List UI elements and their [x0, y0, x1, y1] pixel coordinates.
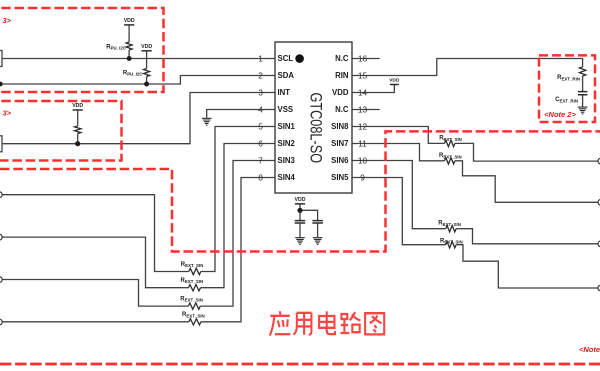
resistor R_EXT_SIN right 2	[445, 158, 455, 164]
resistor R_EXT_SIN right 3	[446, 226, 456, 232]
wire SIN8 net	[352, 127, 599, 162]
ground under C2	[313, 238, 323, 245]
terminal SIN7 right edge	[598, 199, 600, 205]
wire SCL net	[0, 58, 275, 60]
svg-text:14: 14	[358, 87, 368, 97]
svg-text:REXT_RIN: REXT_RIN	[557, 75, 580, 81]
note box 3 SIN region	[0, 131, 600, 251]
svg-text:16: 16	[358, 53, 368, 63]
svg-text:13: 13	[358, 104, 368, 114]
wire RIN net	[352, 59, 583, 76]
resistor R_EXT_SIN left 4	[189, 319, 201, 325]
svg-text:SIN7: SIN7	[331, 139, 348, 148]
svg-text:SIN8: SIN8	[331, 122, 349, 131]
svg-text:VDD: VDD	[332, 88, 349, 97]
svg-text:N.C: N.C	[335, 54, 349, 63]
svg-text:7: 7	[258, 155, 263, 165]
svg-text:REXT_SIN: REXT_SIN	[438, 221, 461, 227]
note box 1 I2C pullups	[0, 8, 164, 92]
junction dot RPU1/SCL	[127, 56, 132, 61]
svg-text:VDD: VDD	[124, 18, 135, 24]
svg-text:<Note 3>: <Note 3>	[0, 16, 12, 25]
resistor R_EXT_RIN vertical	[579, 67, 585, 76]
resistor R_EXT_SIN left 2	[189, 285, 201, 291]
svg-text:15: 15	[358, 70, 368, 80]
junction dot VDD decoupling	[297, 208, 302, 213]
ground under C_EXT_RIN	[578, 107, 588, 114]
VDD symbol bar RPU1	[124, 24, 134, 26]
VDD symbol bar RPU2	[142, 50, 152, 52]
svg-text:RIN: RIN	[335, 71, 349, 80]
wire SIN1 net	[0, 127, 275, 272]
svg-text:N.C: N.C	[335, 105, 349, 114]
VDD symbol bar pin14	[390, 84, 399, 86]
resistor R_EXT_SIN left 1	[189, 268, 201, 274]
svg-text:1: 1	[258, 53, 263, 63]
wire VDD decoupling branch	[300, 204, 318, 237]
wire RPU2 branch	[146, 51, 148, 84]
svg-text:6: 6	[258, 138, 263, 148]
wire RIN RC branch	[582, 76, 584, 107]
wire pin13 NC stub	[352, 109, 380, 111]
terminal SIN5 right edge	[598, 285, 600, 291]
VDD symbol bar box2	[73, 109, 83, 111]
terminal SIN2 left edge	[0, 234, 2, 240]
svg-text:INT: INT	[278, 88, 291, 97]
wire SDA net	[0, 76, 275, 85]
svg-text:SDA: SDA	[278, 71, 295, 80]
resistor R_EXT_SIN left 3	[188, 303, 200, 309]
svg-text:VDD: VDD	[295, 197, 306, 203]
glyph 用	[294, 313, 312, 335]
wire SIN3 net	[0, 161, 275, 307]
svg-text:SIN2: SIN2	[278, 139, 296, 148]
svg-text:3: 3	[258, 87, 263, 97]
svg-text:RPU_I2C: RPU_I2C	[106, 44, 127, 50]
svg-text:4: 4	[258, 104, 263, 114]
glyph 应	[270, 311, 291, 335]
svg-text:9: 9	[360, 172, 365, 182]
svg-text:SIN5: SIN5	[331, 173, 349, 182]
VDD symbol bar below chip	[295, 203, 305, 205]
terminal SIN6 right edge	[598, 241, 600, 247]
terminal SIN8 right edge	[598, 158, 600, 164]
svg-text:CEXT_RIN: CEXT_RIN	[555, 97, 578, 103]
capacitor C1 below chip	[295, 221, 306, 223]
note box 2 INT pullup	[0, 101, 122, 161]
resistor R_PU_I2C 2 vertical	[144, 69, 150, 77]
terminal SIN3 left edge	[0, 277, 2, 283]
junction dot box2/INT	[75, 141, 80, 146]
capacitor C2 below chip	[312, 221, 323, 223]
wire VSS to ground	[207, 110, 275, 118]
svg-text:REXT_SIN: REXT_SIN	[440, 238, 463, 244]
svg-text:SCL: SCL	[278, 54, 294, 63]
svg-text:11: 11	[358, 138, 367, 148]
note box 2 RIN RC	[539, 55, 595, 122]
svg-text:2: 2	[258, 70, 263, 80]
terminal SIN1 left edge	[0, 192, 2, 198]
svg-text:REXT_SIN: REXT_SIN	[180, 297, 203, 303]
op-amp U1 GTC08L-SO chip body	[275, 42, 352, 193]
svg-text:12: 12	[358, 121, 368, 131]
wire SIN4 net	[0, 178, 275, 322]
svg-text:REXT_SIN: REXT_SIN	[182, 312, 205, 318]
wire INT net	[0, 93, 275, 144]
terminal SDA left edge	[0, 82, 3, 87]
svg-text:VDD: VDD	[72, 103, 83, 109]
svg-text:<Note 2>: <Note 2>	[544, 110, 576, 119]
wire SIN2 net	[0, 144, 275, 288]
capacitor C_EXT_RIN	[578, 92, 588, 95]
resistor R_EXT_SIN right 1	[445, 140, 455, 146]
svg-text:SIN6: SIN6	[331, 156, 349, 165]
wire RPU1 branch	[128, 25, 130, 59]
resistor R_PU_I2C 1 vertical	[126, 42, 132, 50]
svg-text:VDD: VDD	[141, 44, 152, 50]
terminal INT left edge	[0, 136, 2, 152]
svg-text:REXT_SIN: REXT_SIN	[181, 278, 204, 284]
title 应用电路图 (application circuit) drawn as strokes	[270, 311, 384, 335]
svg-text:SIN1: SIN1	[278, 122, 296, 131]
svg-text:VDD: VDD	[389, 78, 400, 84]
svg-text:10: 10	[358, 155, 368, 165]
resistor box2 pullup vertical	[75, 126, 81, 133]
resistor R_EXT_SIN right 4	[446, 242, 456, 248]
svg-text:GTC08L-SO: GTC08L-SO	[306, 93, 324, 164]
wire box2 pullup branch	[77, 110, 79, 144]
ground under C1	[295, 238, 305, 245]
pin1 indicator dot	[295, 54, 304, 63]
svg-text:SIN3: SIN3	[278, 156, 296, 165]
ground VSS	[202, 118, 212, 125]
wire SIN7 net	[352, 144, 599, 203]
glyph 路	[340, 312, 360, 333]
terminal SIN4 left edge	[0, 319, 2, 325]
svg-text:8: 8	[258, 172, 263, 182]
svg-text:SIN4: SIN4	[278, 173, 296, 182]
note box bottom line	[0, 363, 600, 366]
junction dot RPU2/SDA	[144, 82, 149, 87]
svg-text:RPU_I2C: RPU_I2C	[123, 70, 144, 76]
svg-text:5: 5	[258, 121, 263, 131]
glyph 电	[319, 311, 335, 334]
terminal SCL left edge	[0, 51, 2, 67]
wire SIN5 net	[352, 178, 599, 289]
svg-text:<Note 3>: <Note 3>	[0, 109, 12, 118]
wire pin16 NC stub	[352, 58, 380, 60]
wire pin14 VDD stub	[352, 85, 394, 93]
glyph 图	[365, 313, 384, 334]
svg-text:REXT_SIN: REXT_SIN	[439, 136, 462, 142]
wire SIN6 net	[352, 161, 599, 244]
svg-text:REXT_SIN: REXT_SIN	[439, 153, 462, 159]
svg-text:VSS: VSS	[278, 105, 294, 114]
svg-text:<Note 4>: <Note 4>	[579, 345, 600, 354]
svg-text:REXT_SIN: REXT_SIN	[181, 262, 204, 268]
